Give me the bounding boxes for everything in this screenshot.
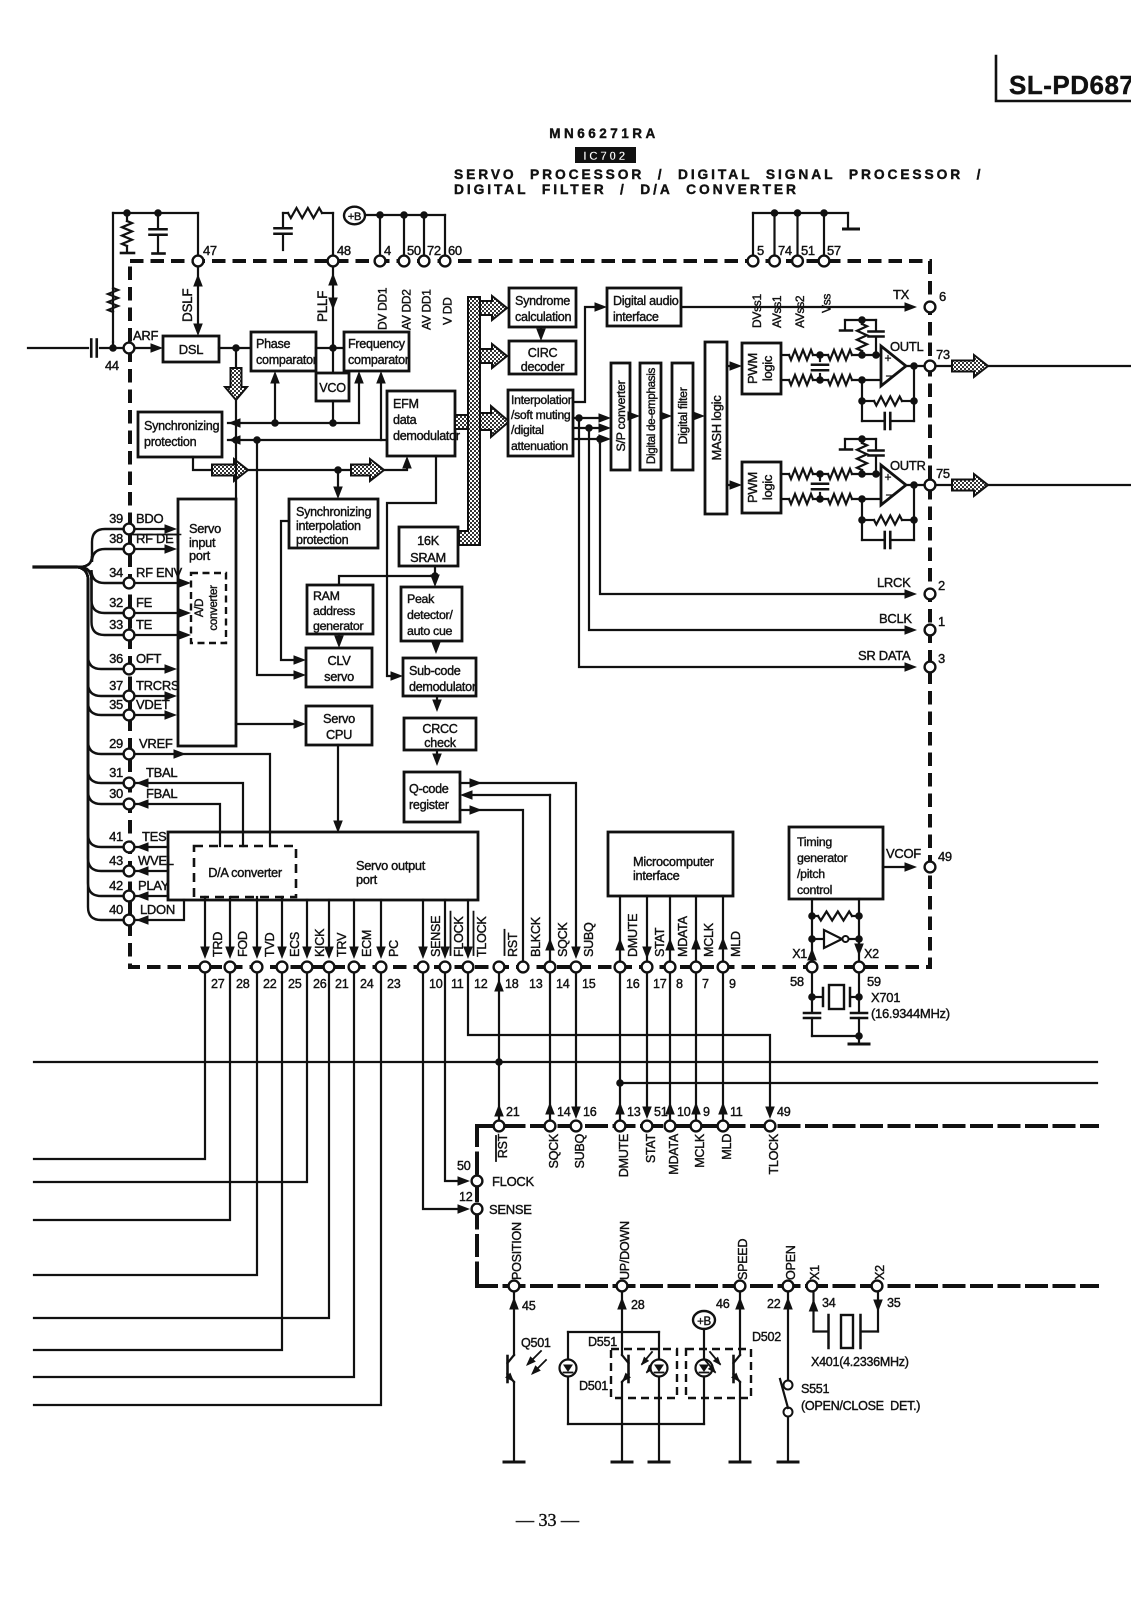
pin 16 DMUTE bbox=[615, 962, 626, 973]
svg-text:PWM: PWM bbox=[745, 472, 760, 503]
light arrows into D551 transistor bbox=[642, 1352, 652, 1364]
pin 3 SR DATA bbox=[925, 662, 936, 673]
svg-text:13: 13 bbox=[529, 977, 543, 991]
svg-text:D502: D502 bbox=[752, 1330, 781, 1344]
pin 44 ARF bbox=[124, 343, 135, 354]
svg-text:16: 16 bbox=[583, 1105, 597, 1119]
capacitor between PWM lines bbox=[819, 355, 821, 361]
transistor Q501 (photo) bbox=[506, 1356, 509, 1382]
svg-text:Peak: Peak bbox=[407, 592, 435, 606]
svg-text:FLOCK: FLOCK bbox=[452, 916, 466, 957]
wire SR DATA bbox=[579, 418, 910, 667]
wire servo input port to servo CPU bbox=[236, 723, 298, 725]
svg-text:EFM: EFM bbox=[393, 397, 419, 411]
svg-text:POSITION: POSITION bbox=[510, 1222, 524, 1280]
wire pin 34 RF ENV harness bbox=[76, 567, 123, 583]
svg-text:attenuation: attenuation bbox=[511, 439, 568, 453]
IC702 designator badge bbox=[575, 147, 636, 163]
block Sub-code demodulator bbox=[403, 658, 476, 696]
block Timing generator pitch control bbox=[789, 827, 883, 899]
wire TRV off-page bbox=[34, 973, 329, 1318]
pin 16 SUBQ (IC501) bbox=[571, 1121, 582, 1132]
pin 21 RST (IC501) bbox=[494, 1121, 505, 1132]
wire FBAL from D/A converter bbox=[136, 804, 220, 846]
svg-text:9: 9 bbox=[703, 1105, 710, 1119]
wire pin 38 RF DET harness bbox=[76, 549, 123, 567]
bias rail resistor+capacitor bbox=[845, 319, 876, 321]
wire servo output port to bottom pins bbox=[204, 897, 206, 952]
wire pin 30 FBAL harness bbox=[76, 567, 123, 804]
svg-text:7: 7 bbox=[702, 977, 709, 991]
svg-text:FOD: FOD bbox=[236, 931, 250, 957]
svg-text:protection: protection bbox=[296, 533, 349, 547]
svg-text:detector/: detector/ bbox=[407, 608, 453, 622]
svg-text:24: 24 bbox=[360, 977, 374, 991]
svg-text:75: 75 bbox=[936, 466, 950, 481]
pin 22 TVD bbox=[252, 962, 263, 973]
svg-text:AVss2: AVss2 bbox=[793, 295, 807, 328]
pin 7 MCLK bbox=[691, 962, 702, 973]
svg-text:+B: +B bbox=[348, 211, 361, 223]
block CLV servo bbox=[306, 648, 372, 687]
wire DMUTE to IC501 bbox=[619, 973, 621, 1119]
svg-text:17: 17 bbox=[653, 977, 667, 991]
wire STAT to IC501 bbox=[646, 973, 648, 1112]
pin 59 X2 bbox=[854, 962, 865, 973]
wire LDON from servo output port bbox=[136, 900, 184, 920]
wire servo CPU to servo output port bbox=[337, 745, 339, 826]
wire TVD off-page bbox=[34, 973, 257, 1275]
svg-text:BDO: BDO bbox=[136, 511, 163, 526]
svg-text:Servo: Servo bbox=[323, 711, 355, 726]
svg-text:MCLK: MCLK bbox=[702, 922, 716, 957]
svg-text:AV DD2: AV DD2 bbox=[400, 289, 414, 330]
svg-text:28: 28 bbox=[631, 1298, 645, 1312]
pin 48 PLLF bbox=[328, 256, 339, 267]
bias rail resistor+capacitor bbox=[845, 438, 876, 440]
svg-text:Frequency: Frequency bbox=[348, 337, 406, 351]
wire X2 internal bbox=[858, 899, 860, 961]
svg-text:OFT: OFT bbox=[136, 651, 161, 666]
pin 8 MDATA bbox=[665, 962, 676, 973]
svg-text:9: 9 bbox=[729, 977, 736, 991]
svg-text:DSL: DSL bbox=[179, 342, 203, 357]
svg-text:address: address bbox=[313, 604, 355, 618]
svg-text:34: 34 bbox=[822, 1296, 836, 1310]
svg-text:AV DD1: AV DD1 bbox=[420, 289, 434, 330]
wire SPEED sensor bbox=[739, 1292, 741, 1355]
svg-text:VCOF: VCOF bbox=[886, 846, 921, 861]
svg-text:SUBQ: SUBQ bbox=[582, 922, 596, 957]
svg-text:FE: FE bbox=[136, 595, 153, 610]
svg-text:Synchronizing: Synchronizing bbox=[296, 505, 372, 519]
pin 33 TE bbox=[124, 630, 135, 641]
svg-text:DSLF: DSLF bbox=[180, 289, 195, 322]
svg-text:X1: X1 bbox=[808, 1265, 822, 1280]
svg-text:32: 32 bbox=[109, 595, 123, 610]
wire +B rail bbox=[366, 214, 445, 216]
svg-text:MLD: MLD bbox=[720, 1134, 734, 1160]
wire PLLF double-arrow bbox=[332, 267, 334, 348]
svg-text:14: 14 bbox=[557, 1105, 571, 1119]
pin 37 TRCRS bbox=[124, 691, 135, 702]
pin 12 SENSE (IC501) bbox=[472, 1204, 483, 1215]
hatched arrow DSL output down bbox=[235, 348, 237, 368]
pin 34 RF ENV bbox=[124, 578, 135, 589]
ground (UP/DOWN) bbox=[612, 1461, 632, 1464]
wire sub-code to CRCC bbox=[436, 696, 438, 705]
capacitor (DSLF filter) bbox=[157, 213, 159, 227]
pin 11 FLOCK bbox=[440, 962, 451, 973]
svg-text:41: 41 bbox=[109, 829, 123, 844]
capacitor (ARF coupling) bbox=[28, 347, 88, 349]
svg-text:RF DET: RF DET bbox=[136, 531, 182, 546]
wire vco line to CLV servo bbox=[257, 440, 299, 675]
block Synchronizing protection bbox=[138, 412, 222, 457]
svg-text:SR DATA: SR DATA bbox=[858, 648, 911, 663]
hatched bus branch to interpolation bbox=[480, 406, 509, 437]
svg-text:10: 10 bbox=[677, 1105, 691, 1119]
block MASH logic bbox=[705, 342, 727, 514]
svg-text:CLV: CLV bbox=[327, 653, 351, 668]
svg-text:interface: interface bbox=[613, 310, 659, 324]
svg-text:Q-code: Q-code bbox=[409, 782, 449, 796]
svg-text:interface: interface bbox=[633, 868, 680, 883]
pin 35 X2 (IC501) bbox=[872, 1281, 883, 1292]
svg-text:FLOCK: FLOCK bbox=[492, 1174, 534, 1189]
wire FE to A/D converter bbox=[135, 612, 182, 614]
svg-text:49: 49 bbox=[938, 849, 952, 864]
svg-text:SPEED: SPEED bbox=[736, 1239, 750, 1280]
pin 49 TLOCK (IC501) bbox=[765, 1121, 776, 1132]
wire EFM demod to sub-code demodulator bbox=[387, 456, 436, 676]
svg-text:auto cue: auto cue bbox=[407, 624, 453, 638]
svg-text:1: 1 bbox=[938, 614, 945, 629]
pin 46 SPEED (IC501) bbox=[735, 1281, 746, 1292]
svg-text:(OPEN/CLOSE DET.): (OPEN/CLOSE DET.) bbox=[801, 1399, 920, 1413]
op-amp OUTL bbox=[881, 346, 906, 386]
svg-text:generator: generator bbox=[313, 619, 364, 633]
wire op-amp output to pin bbox=[906, 484, 923, 486]
svg-text:control: control bbox=[797, 883, 832, 897]
block CRCC check bbox=[404, 718, 476, 750]
wire FOD off-page bbox=[34, 973, 230, 1220]
pin 72 AVDD1 bbox=[419, 256, 430, 267]
wire Q-code register to BLKCK pin bbox=[460, 810, 523, 961]
wire MCLK to IC501 bbox=[695, 973, 697, 1119]
svg-text:demodulator: demodulator bbox=[409, 680, 476, 694]
page corner frame SL-PD687 bbox=[996, 56, 1131, 101]
op-amp OUTR bbox=[881, 465, 906, 505]
pin 43 WVEL bbox=[124, 866, 135, 877]
svg-text:TRCRS: TRCRS bbox=[136, 678, 180, 693]
svg-text:VREF: VREF bbox=[139, 736, 173, 751]
svg-text:S551: S551 bbox=[801, 1382, 830, 1396]
crystal X401 bbox=[812, 1292, 814, 1332]
svg-text:27: 27 bbox=[211, 977, 225, 991]
block EFM data demodulator bbox=[387, 391, 455, 456]
block DSL bbox=[163, 336, 219, 362]
pin 42 PLAY bbox=[124, 891, 135, 902]
wire interpolation outputs to S/P converter bbox=[573, 417, 602, 419]
svg-text:11: 11 bbox=[730, 1105, 743, 1119]
wire SRAM to RAM address generator / peak detector bbox=[339, 566, 435, 585]
wire VDET to servo input port bbox=[135, 714, 168, 716]
wire pin 32 FE harness bbox=[76, 567, 123, 613]
svg-text:12: 12 bbox=[459, 1190, 473, 1204]
svg-text:MASH logic: MASH logic bbox=[709, 395, 724, 461]
svg-text:12: 12 bbox=[474, 977, 488, 991]
IC501 dashed boundary bbox=[477, 1124, 1097, 1128]
wire PWM outputs bbox=[781, 354, 789, 356]
svg-text:8: 8 bbox=[676, 977, 683, 991]
wire output off-page bbox=[936, 484, 952, 486]
wire BDO to servo input port bbox=[135, 528, 168, 530]
pin 10 SENSE bbox=[418, 962, 429, 973]
svg-text:Servo: Servo bbox=[189, 521, 221, 536]
wire TES from servo output port bbox=[136, 846, 168, 848]
wire DSLF down to DSL bbox=[197, 267, 199, 330]
wire VCO output bus to sync protection / comparators bbox=[228, 422, 359, 424]
wire TBAL from D/A converter bbox=[136, 783, 243, 846]
svg-text:Synchronizing: Synchronizing bbox=[144, 419, 220, 433]
svg-text:TLOCK: TLOCK bbox=[475, 916, 489, 957]
block 16K SRAM bbox=[399, 527, 458, 566]
hatched data bus vertical bbox=[459, 297, 480, 545]
pin 6 TX bbox=[925, 302, 936, 313]
block S/P converter bbox=[611, 363, 630, 470]
svg-text:IC702: IC702 bbox=[583, 149, 628, 163]
svg-text:decoder: decoder bbox=[521, 360, 565, 374]
pin 35 VDET bbox=[124, 710, 135, 721]
svg-text:51: 51 bbox=[801, 243, 815, 258]
wire sync protection output with hatched arrows bbox=[193, 457, 212, 470]
svg-text:25: 25 bbox=[288, 977, 302, 991]
svg-text:DMUTE: DMUTE bbox=[626, 914, 640, 957]
wire DSL to phase comparator bbox=[219, 347, 251, 349]
svg-text:23: 23 bbox=[387, 977, 401, 991]
wire RAM address generator to CLV servo bbox=[338, 634, 340, 641]
wire to synchronizing interpolation protection bbox=[337, 470, 339, 492]
wire D551 LED to ground bbox=[658, 1424, 660, 1461]
svg-text:AVss1: AVss1 bbox=[770, 295, 784, 328]
svg-text:X2: X2 bbox=[864, 947, 879, 961]
resistor oscillator feedback bbox=[808, 912, 816, 920]
pin 14 SQCK bbox=[545, 962, 556, 973]
pin 22 OPEN (IC501) bbox=[783, 1281, 794, 1292]
svg-text:servo: servo bbox=[324, 669, 354, 684]
pin 74 AVss1 bbox=[769, 256, 780, 267]
wire PC off-page bbox=[34, 973, 381, 1405]
wire microcomputer interface to bottom pins bbox=[619, 896, 621, 961]
svg-text:port: port bbox=[356, 872, 378, 887]
svg-text:21: 21 bbox=[335, 977, 349, 991]
svg-text:comparator: comparator bbox=[256, 353, 317, 367]
wire pin 35 VDET harness bbox=[76, 567, 123, 715]
wire pin 42 PLAY harness bbox=[76, 567, 123, 896]
svg-text:demodulator: demodulator bbox=[393, 429, 460, 443]
svg-text:converter: converter bbox=[208, 585, 220, 631]
svg-text:50: 50 bbox=[407, 243, 421, 258]
wire pin 33 TE harness bbox=[76, 567, 123, 635]
svg-text:28: 28 bbox=[236, 977, 250, 991]
svg-text:TES: TES bbox=[142, 829, 167, 844]
svg-text:VCO: VCO bbox=[319, 381, 346, 395]
pin 27 TRD bbox=[200, 962, 211, 973]
wire DMUTE net horizontal off-page bbox=[620, 1082, 1097, 1084]
svg-text:RF ENV: RF ENV bbox=[136, 565, 183, 580]
hatched bus link from EFM demodulator bbox=[455, 415, 468, 429]
ground (SPEED) bbox=[730, 1461, 750, 1464]
wire EFM feedback to sync protection / freq comparator bbox=[228, 439, 387, 441]
svg-text:CPU: CPU bbox=[326, 727, 352, 742]
pin 11 MLD (IC501) bbox=[718, 1121, 729, 1132]
wire bbox=[693, 415, 698, 417]
svg-text:SL-PD687: SL-PD687 bbox=[1009, 70, 1131, 100]
svg-text:MLD: MLD bbox=[729, 931, 743, 957]
svg-text:UP/DOWN: UP/DOWN bbox=[618, 1221, 632, 1280]
wire BCLK bbox=[589, 428, 910, 630]
wire MDATA to IC501 bbox=[669, 973, 671, 1119]
block Interpolation soft muting digital attenuation bbox=[508, 390, 573, 456]
svg-text:Interpolation: Interpolation bbox=[511, 393, 574, 407]
wire PLL filter bbox=[283, 212, 288, 214]
svg-text:check: check bbox=[424, 736, 456, 750]
svg-text:43: 43 bbox=[109, 853, 123, 868]
svg-text:OPEN: OPEN bbox=[784, 1245, 798, 1280]
pin 34 X1 (IC501) bbox=[807, 1281, 818, 1292]
block Q-code register bbox=[404, 772, 460, 822]
block D/A converter (dashed) bbox=[194, 846, 296, 897]
block CIRC decoder bbox=[509, 341, 576, 374]
svg-text:logic: logic bbox=[760, 474, 775, 500]
wire TRCRS to servo input port bbox=[135, 695, 168, 697]
wire RF DET to servo input port bbox=[135, 548, 168, 550]
wire MASH to PWM logic L bbox=[727, 365, 735, 367]
pin 4 DVDD1 bbox=[375, 256, 386, 267]
pin 58 X1 bbox=[807, 962, 818, 973]
svg-text:/soft muting: /soft muting bbox=[511, 408, 570, 422]
svg-text:DV DD1: DV DD1 bbox=[376, 287, 390, 330]
pin 25 ECS bbox=[277, 962, 288, 973]
svg-text:29: 29 bbox=[109, 736, 123, 751]
block Servo CPU bbox=[306, 706, 372, 745]
block Digital filter bbox=[672, 363, 693, 470]
svg-text:39: 39 bbox=[109, 511, 123, 526]
wire top-left supply bbox=[113, 212, 198, 214]
pin 10 MDATA (IC501) bbox=[665, 1121, 676, 1132]
svg-text:59: 59 bbox=[867, 974, 881, 989]
block Synchronizing interpolation protection bbox=[289, 499, 378, 548]
pin 2 LRCK bbox=[925, 589, 936, 600]
light arrows into D502 transistor bbox=[710, 1352, 720, 1364]
svg-text:Digital audio: Digital audio bbox=[613, 294, 679, 308]
block Syndrome calculation bbox=[509, 288, 576, 327]
svg-text:+B: +B bbox=[697, 1316, 711, 1328]
svg-text:−: − bbox=[886, 488, 893, 502]
svg-text:72: 72 bbox=[427, 243, 441, 258]
pin 15 SUBQ bbox=[571, 962, 582, 973]
wire Vss rail bbox=[753, 212, 848, 214]
wire PWM outputs bbox=[781, 473, 789, 475]
svg-text:16K: 16K bbox=[417, 533, 440, 548]
ground (Vss rail) bbox=[847, 213, 849, 228]
pin 14 SQCK (IC501) bbox=[545, 1121, 556, 1132]
block Digital audio interface bbox=[607, 288, 681, 326]
feedback capacitor bbox=[862, 420, 884, 422]
pin 50 FLOCK (IC501) bbox=[472, 1176, 483, 1187]
svg-text:/digital: /digital bbox=[511, 423, 544, 437]
svg-text:MN66271RA: MN66271RA bbox=[549, 126, 659, 141]
svg-text:MDATA: MDATA bbox=[676, 915, 690, 957]
svg-text:22: 22 bbox=[263, 977, 277, 991]
svg-text:11: 11 bbox=[451, 977, 464, 991]
svg-text:protection: protection bbox=[144, 435, 197, 449]
pin 13 BLKCK bbox=[518, 962, 529, 973]
svg-text:35: 35 bbox=[887, 1296, 901, 1310]
wire OPEN switch bbox=[787, 1292, 789, 1380]
pin 5 DVss1 bbox=[748, 256, 759, 267]
svg-text:33: 33 bbox=[109, 617, 123, 632]
wire VREF to D/A converter bbox=[135, 754, 270, 846]
pin 38 RF DET bbox=[124, 544, 135, 555]
svg-text:WVEL: WVEL bbox=[138, 853, 174, 868]
svg-text:logic: logic bbox=[760, 355, 775, 381]
capacitor (X701 right) bbox=[858, 997, 860, 1012]
svg-text:48: 48 bbox=[337, 243, 351, 258]
photo-coupler D502 dashed box bbox=[686, 1349, 751, 1398]
svg-text:Digital de-emphasis: Digital de-emphasis bbox=[645, 367, 658, 464]
svg-text:−: − bbox=[886, 369, 893, 383]
svg-text:X401(4.2336MHz): X401(4.2336MHz) bbox=[811, 1355, 909, 1369]
svg-text:RST: RST bbox=[506, 932, 520, 957]
+B supply (sensor LEDs) bbox=[693, 1311, 715, 1329]
svg-text:36: 36 bbox=[109, 651, 123, 666]
wire harness bundle to off-page left bbox=[34, 565, 76, 568]
light arrows into Q501 bbox=[528, 1351, 541, 1364]
wire RF ENV to A/D converter bbox=[135, 582, 182, 584]
pin 45 POSITION (IC501) bbox=[509, 1281, 520, 1292]
wire MASH to PWM logic R bbox=[727, 484, 735, 486]
svg-text:Sub-code: Sub-code bbox=[409, 664, 461, 678]
pin 47 DSLF bbox=[193, 256, 204, 267]
svg-text:6: 6 bbox=[939, 289, 946, 304]
svg-text:35: 35 bbox=[109, 697, 123, 712]
svg-text:ECM: ECM bbox=[360, 930, 374, 957]
svg-text:PC: PC bbox=[387, 940, 401, 957]
wire VCOF to pin 49 bbox=[883, 866, 910, 868]
pin 60 VDD bbox=[440, 256, 451, 267]
capacitor between PWM lines bbox=[819, 474, 821, 480]
crystal X701 bbox=[811, 973, 813, 997]
svg-text:KICK: KICK bbox=[313, 928, 327, 957]
wire OFT to servo input port bbox=[135, 668, 168, 670]
wire sync interp to CLV servo bbox=[281, 521, 299, 660]
svg-text:37: 37 bbox=[109, 678, 123, 693]
svg-text:STAT: STAT bbox=[644, 1133, 658, 1163]
pin 32 FE bbox=[124, 608, 135, 619]
svg-text:ARF: ARF bbox=[133, 328, 158, 343]
wire SQCK to IC501 bbox=[549, 973, 551, 1119]
capacitor (PLL filter) bbox=[282, 213, 284, 226]
LED D502 (emitter) bbox=[696, 1360, 713, 1377]
pin 73 OUTL bbox=[925, 361, 936, 372]
wire UP/DOWN sensor bbox=[621, 1292, 623, 1355]
wire EFM line into servo input port corner bbox=[235, 440, 237, 499]
svg-text:CRCC: CRCC bbox=[422, 722, 457, 736]
svg-text:74: 74 bbox=[778, 243, 792, 258]
svg-text:BCLK: BCLK bbox=[879, 611, 912, 626]
